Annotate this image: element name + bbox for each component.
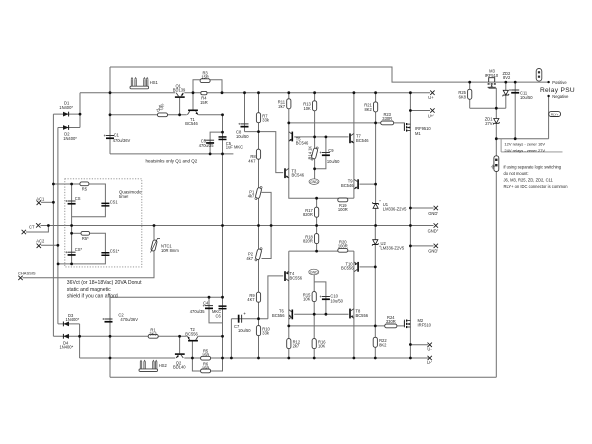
capacitor C1 470u/36V [104,133,131,143]
svg-text:BC556: BC556 [356,313,369,318]
transistor T4 BC556 [284,271,303,281]
svg-text:3K3: 3K3 [149,332,157,337]
zener ZD2 8V2 [503,71,512,96]
wire right border [495,108,497,377]
reference U1 LM336-Z2V5 [372,198,407,211]
wire GND' stubs [410,207,433,209]
wire base drive rail bottom y=336.3 [80,335,187,337]
wire P1 wiper [262,192,272,258]
wire M3 gate path [489,88,496,109]
wire gate line M2 [289,325,385,327]
svg-text:RLY+ on IDC connector is commo: RLY+ on IDC connector is common [504,184,569,189]
transistor T10 BC556 [341,261,359,271]
wire R6 parallel loop [192,358,222,371]
resistor R24 330R [385,315,397,328]
wire AC line 2 vertical [57,128,59,324]
wire relay note box [500,139,502,152]
wire R17/R18 chain [316,198,318,251]
resistor R7 33k [256,113,269,123]
svg-text:8K2: 8K2 [365,107,373,112]
resistor R9 4K7 [247,292,260,302]
capacitor CS [65,196,80,205]
node dots relay [468,81,471,84]
svg-text:U-: U- [427,347,432,352]
ground symbol bottom GND [309,269,319,275]
transistor T6 BC556 [272,309,293,320]
svg-text:M1: M1 [415,131,421,136]
svg-text:1N400*: 1N400* [63,136,77,141]
wire T10 base stub [360,266,376,268]
transistor T7 BC546 [349,133,369,143]
svg-text:1N400*: 1N400* [59,105,73,110]
wire T5/T7 base line [294,136,348,138]
svg-text:4k7: 4k7 [248,194,255,199]
trimmer P1 4k7 [248,186,262,199]
svg-text:BC546: BC546 [185,121,198,126]
wire D2 row [58,127,80,129]
terminal U-' [427,356,432,365]
zener ZD1 27V [485,117,500,126]
svg-text:12V relays - zener 16V: 12V relays - zener 16V [504,142,545,147]
resistor R25 6K8 [458,89,471,99]
resistor R8 4K7 [248,149,260,163]
wire negative line [496,138,548,140]
svg-text:time!: time! [119,194,129,199]
capacitor C9 10u/50 [320,148,340,164]
svg-text:heatsinks only Q1 and Q2: heatsinks only Q1 and Q2 [146,159,198,164]
svg-text:IRF510: IRF510 [418,323,432,328]
wire CT stub [41,225,49,227]
node dots gnd rail [47,224,50,227]
capacitor C4 470u/35 [190,301,213,314]
wire R20 line [289,250,339,252]
resistor R11 2k7 [278,99,291,109]
wire T7/T9 chain [353,93,355,199]
capacitor CS* [65,247,82,256]
resistor R4 15R [200,91,208,105]
svg-text:470u/36V: 470u/36V [120,317,138,322]
connector RLY+ [549,112,561,117]
svg-text:470u/35: 470u/35 [199,143,215,148]
resistor R5 15R [201,349,211,361]
capacitor C6 1uF MKC [212,305,227,318]
svg-text:BC556: BC556 [185,331,198,336]
transistor T1 BC546 [185,110,198,127]
capacitor CS1 [101,199,118,206]
label negative [547,95,549,97]
svg-text:CT: CT [29,225,35,230]
svg-text:BC546: BC546 [341,183,354,188]
svg-text:330R: 330R [386,319,396,324]
wire AC line 1 vertical [52,114,54,336]
svg-text:LM336-Z2V5: LM336-Z2V5 [381,246,405,251]
capacitor C3 470u/35 [199,139,215,149]
svg-text:do not mount:: do not mount: [504,171,529,176]
capacitor C8 10u/50 [236,123,249,139]
svg-text:4K7: 4K7 [248,158,256,163]
terminal GND'' mid [428,223,439,233]
terminal U- [427,343,432,352]
heatsink HS2 [139,360,167,371]
transistor Q1 BD139 [173,83,186,98]
svg-text:8K2: 8K2 [379,342,387,347]
wire rectifier - join vertical [79,324,81,358]
wire negative riser [548,96,550,139]
mosfet M1 IRF9510 [404,123,431,136]
wire P2/R9/R10 chain [258,226,260,359]
svg-text:36Vct (or 18+18Vac) 20VA Donut: 36Vct (or 18+18Vac) 20VA Donut [67,280,142,286]
node dots snubber [52,183,55,186]
mosfet M3 IRF510 [485,69,499,88]
label positive [547,81,549,83]
resistor R2 2K2 [155,102,167,117]
node dots bottom rail [109,357,112,360]
svg-text:HS2: HS2 [159,363,168,368]
resistor R18 820R [303,234,319,244]
resistor R22 8K2 [373,337,387,347]
terminal U+' [428,108,435,118]
wire error amp chain bottom [288,251,290,358]
thermistor NTC1 10R 8mm [151,239,180,253]
svg-text:AC2: AC2 [36,238,45,243]
reference U2 LM336-Z2V5 [372,240,405,251]
svg-text:CS1: CS1 [110,199,119,204]
wire error amp chain top x=288.8 [289,93,339,199]
wire GND stem bottom [313,275,315,282]
terminal CT [22,223,41,234]
svg-text:820R: 820R [303,239,313,244]
svg-text:R5: R5 [82,187,88,192]
wire C10 branch [314,282,326,314]
svg-text:1N400*: 1N400* [60,345,74,350]
svg-text:470u/36V: 470u/36V [113,138,131,143]
wire C3 branch [210,132,222,154]
resistor R16 10K [312,339,326,349]
svg-text:C1: C1 [114,133,120,138]
wire C9 branch [315,137,326,169]
wire D1 row [53,113,80,115]
svg-text:33k: 33k [262,118,270,123]
svg-text:24V relays - zener 27V: 24V relays - zener 27V [504,148,545,153]
wire U1 chain [375,93,377,226]
svg-text:4K7: 4K7 [247,297,255,302]
svg-text:2k7: 2k7 [278,104,285,109]
wire R15/R16 chain [313,282,315,358]
resistor R5* snubber [81,231,90,241]
wire Q2 base riser [179,336,181,353]
wire top border [110,67,549,82]
resistor R20 100R [338,239,348,252]
svg-text:820R: 820R [303,212,313,217]
wire mid GND rail [48,225,433,227]
wire C8 branch to T3 base [244,93,246,132]
terminal U+ [428,91,434,100]
svg-text:BC556: BC556 [290,276,303,281]
wire U2 chain [374,226,376,359]
svg-text:15R: 15R [201,75,209,80]
svg-text:shield if you can afford: shield if you can afford [67,293,118,299]
transistor T3 BC546 [284,168,305,178]
capacitor C5 1uF MKC [219,136,244,149]
svg-text:100R: 100R [338,207,348,212]
svg-text:2k7: 2k7 [293,344,300,349]
wire T9 base stub [360,183,376,185]
node dots bottom section [208,296,211,299]
wire left border bottom [109,297,111,377]
resistor R15 10K [303,292,316,302]
capacitor C11 10u/50 [509,89,533,100]
trimmer P2 4k7 [246,248,262,261]
wire M1/M2 output spine [409,93,411,358]
svg-text:4k7: 4k7 [246,256,253,261]
transistor Q2 BD140 [173,353,186,369]
svg-text:R5*: R5* [82,236,89,241]
capacitor CS1* [101,249,119,256]
transistor T2 BC556 [185,327,198,341]
wire T2 base drop [191,342,193,359]
resistor R12 2k7 [287,339,301,349]
diode D1 1N400* [59,100,73,116]
svg-text:15R: 15R [202,353,210,358]
wire output rail bottom y=297.2 [110,296,223,298]
svg-text:U-': U-' [427,360,432,365]
svg-text:Negative: Negative [552,94,569,99]
wire ZD2 drop [505,82,507,108]
svg-text:C4: C4 [203,301,209,306]
svg-text:GND'': GND'' [428,228,439,233]
wire D4 row [53,335,79,337]
wire rectifier + join vertical [79,93,81,128]
wire left border top [109,67,111,154]
wire R13/R14 chain [314,93,316,180]
resistor R5 snubber [80,182,89,192]
resistor R19 100R [338,198,348,212]
wire snubber top loop [53,183,80,185]
wire U- stub [410,344,428,346]
resistor R23 330R [381,112,394,125]
wire bottom border [110,376,496,378]
diode D3 1N400* [63,313,79,326]
svg-text:BC546: BC546 [296,141,309,146]
wire T1 base riser [192,93,194,110]
wire D3 row [58,323,80,325]
wire gate line M3 [470,107,506,109]
svg-text:1N400*: 1N400* [66,317,80,322]
svg-text:LM336-Z2V5: LM336-Z2V5 [383,207,407,212]
wire snubber bottom loop [72,232,81,234]
resistor R1 3K3 [148,328,158,338]
wire T10/T8 chain [353,251,355,358]
wire AC1 stub [41,201,53,203]
svg-text:U+: U+ [428,95,434,100]
quasimodo dashed box [65,179,142,267]
svg-text:470u/35: 470u/35 [190,309,206,314]
transistor T8 BC556 [349,309,369,319]
svg-text:Positive: Positive [552,80,567,85]
wire R3 parallel loop [193,80,222,93]
terminal GND' top [428,206,438,216]
svg-text:BD140: BD140 [173,365,186,370]
svg-text:GND': GND' [428,249,438,254]
svg-text:10u/50: 10u/50 [327,159,340,164]
svg-text:C6: C6 [216,314,222,319]
wire C4 branch [209,297,223,323]
svg-text:BC556: BC556 [272,313,285,318]
trimmer R14 1K [308,146,319,161]
capacitor C10 10u/50 [320,294,344,304]
resistor R3 15R [200,71,210,83]
svg-text:10u/50: 10u/50 [330,299,343,304]
resistor R6 15R [201,361,211,373]
wire top rail V+ [80,92,175,94]
svg-text:R14 1K: R14 1K [308,146,313,160]
svg-text:CS: CS [75,196,81,201]
diode D4 1N400* [60,334,74,350]
svg-text:15R: 15R [200,100,208,105]
transistor T9 BC546 [341,179,359,190]
terminal AC1 [36,196,45,205]
terminal AC2 [36,238,45,248]
svg-text:6K8: 6K8 [459,94,467,99]
wire AC2 stub [41,244,58,246]
svg-text:BC546: BC546 [292,173,305,178]
svg-text:CHASSIS: CHASSIS [18,270,36,275]
wire R7/R8/P1 chain [258,93,260,226]
svg-text:33k: 33k [262,331,270,336]
wire chassis run [23,226,155,278]
wire T6/T8 base line [294,313,348,315]
svg-text:10R 8mm: 10R 8mm [161,248,179,253]
wire bottom rail V- [80,357,176,359]
resistor R17 820R [303,207,319,217]
svg-text:J6, M3, R25, ZD, ZD2, C11: J6, M3, R25, ZD, ZD2, C11 [504,178,554,183]
node dots output spine [409,207,412,210]
svg-text:CS*: CS* [75,247,83,252]
svg-text:10K: 10K [304,106,312,111]
svg-text:27V: 27V [485,121,493,126]
heatsink HS1 [130,78,158,89]
capacitor C2 470u/36V [102,312,138,322]
svg-text:10u/50: 10u/50 [236,134,249,139]
transistor T5 BC546 [289,132,309,146]
svg-text:15R: 15R [202,365,210,370]
ground symbol top GND [309,179,319,185]
node dots top rail [109,91,112,94]
svg-text:100R: 100R [338,244,348,249]
wire C11 drop [514,82,516,139]
svg-text:10u/50: 10u/50 [520,95,533,100]
connector J6 [489,156,498,172]
svg-text:CS1*: CS1* [110,249,120,254]
node dots rectifier [79,113,82,116]
node dots mid chains [221,131,224,134]
terminal GND' bottom [428,244,438,254]
svg-text:RLY+: RLY+ [551,112,559,116]
capacitor C7 10u/50 [234,313,251,334]
wire Q1 base drop [179,98,181,115]
resistor R13 10K [303,101,316,111]
svg-text:8V2: 8V2 [503,75,511,80]
svg-text:GND': GND' [428,211,438,216]
mosfet M2 IRF510 [404,318,431,328]
svg-text:static and magnetic: static and magnetic [67,287,111,293]
terminal CHASSIS [18,270,36,280]
wire output rail top y=153.9 [110,153,233,155]
svg-text:BD139: BD139 [173,87,186,92]
wire U+ terminal stubs [410,110,430,112]
svg-text:330R: 330R [382,116,392,121]
wire base drive rail top y=114.8 [110,114,187,116]
wire C7 branch to T4 base [230,319,232,358]
svg-text:if using separate logic switch: if using separate logic switching [504,165,562,170]
wire center GND spine x=222.5 [222,115,224,358]
wire R25 drop [469,82,471,108]
svg-text:10u/50: 10u/50 [238,328,251,333]
resistor R21 8K2 [364,102,377,112]
svg-text:HS1: HS1 [150,80,159,85]
svg-text:10K: 10K [318,344,326,349]
resistor R10 33k [256,326,270,336]
svg-text:BC556: BC556 [341,266,354,271]
svg-text:C9: C9 [328,148,334,153]
connector J-IDC top [536,69,542,82]
svg-text:U+': U+' [428,113,434,118]
svg-text:1uF MKC: 1uF MKC [226,145,243,150]
diode D2 1N400* [63,125,77,141]
wire gate line M1 [289,122,381,124]
svg-text:10K: 10K [303,297,311,302]
svg-text:IRF510: IRF510 [485,73,499,78]
svg-text:BC546: BC546 [356,138,369,143]
